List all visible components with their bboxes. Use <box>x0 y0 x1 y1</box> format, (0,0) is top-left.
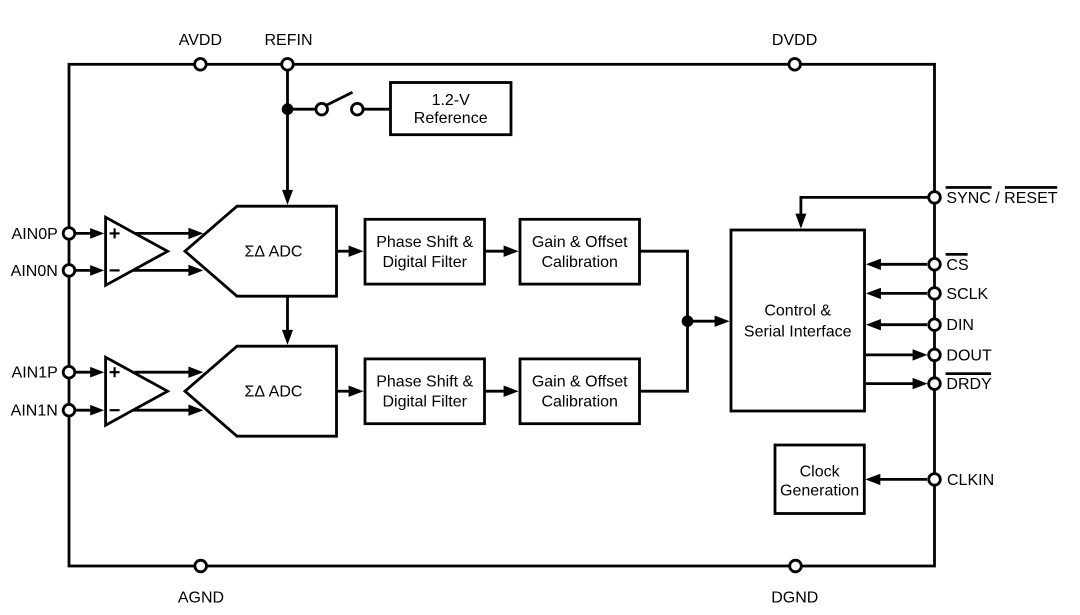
arrow ADC1 to phase filter 1 <box>337 250 351 253</box>
svg-text:Serial Interface: Serial Interface <box>744 324 852 341</box>
arrow DIN to control <box>880 323 927 326</box>
svg-text:DOUT: DOUT <box>946 347 992 364</box>
block Phase Shift Digital Filter 1 <box>365 219 485 284</box>
pin CLKIN <box>929 474 941 486</box>
pin AGND <box>195 560 207 572</box>
pin DRDY <box>929 378 941 390</box>
switch S1 lever <box>326 92 352 105</box>
pin AIN0N <box>63 265 75 277</box>
arrow phase 1 to gain 1 <box>485 250 506 253</box>
pin DGND <box>790 560 802 572</box>
svg-text:AIN0N: AIN0N <box>11 263 58 280</box>
pin SYNC/RESET <box>929 192 941 204</box>
wire amp A1 out P <box>135 232 191 235</box>
svg-text:AIN1N: AIN1N <box>11 403 58 420</box>
arrow REFIN into ADC1 <box>282 190 293 205</box>
block ADC1 sigma-delta <box>185 206 337 296</box>
arrow control to DOUT <box>866 353 914 356</box>
block Control Serial Interface <box>731 230 865 411</box>
chip boundary <box>69 64 935 566</box>
svg-text:Reference: Reference <box>414 110 488 127</box>
node data junction <box>682 315 694 327</box>
svg-text:Calibration: Calibration <box>541 254 617 271</box>
switch S1 throw <box>352 103 364 115</box>
pin DVDD <box>789 59 801 71</box>
svg-text:CLKIN: CLKIN <box>947 472 994 489</box>
block ADC2 sigma-delta <box>185 346 337 436</box>
wire amp A2 out P <box>135 371 191 374</box>
svg-text:1.2-V: 1.2-V <box>432 92 471 109</box>
svg-text:REFIN: REFIN <box>265 32 313 49</box>
arrow SCLK to control <box>880 292 927 295</box>
arrow CLKIN to clock generation <box>880 478 927 481</box>
pin AIN0P <box>63 228 75 240</box>
pin SCLK <box>929 288 941 300</box>
svg-text:Gain & Offset: Gain & Offset <box>532 374 628 391</box>
svg-text:AGND: AGND <box>178 590 224 607</box>
arrow AIN0N to amp <box>76 269 93 272</box>
svg-text:Phase Shift &: Phase Shift & <box>376 234 473 251</box>
arrow control to DRDY <box>866 382 914 385</box>
block Gain Offset Calibration 2 <box>520 359 640 424</box>
block 1.2-V Reference <box>391 83 512 135</box>
block Clock Generation <box>775 445 864 514</box>
pin AIN1P <box>63 366 75 378</box>
op-amp A1 <box>106 217 168 285</box>
svg-text:DVDD: DVDD <box>772 32 817 49</box>
svg-text:ΣΔ ADC: ΣΔ ADC <box>245 384 303 401</box>
node REFIN junction <box>282 103 294 115</box>
svg-text:Digital Filter: Digital Filter <box>382 394 467 411</box>
arrow AIN0P to amp <box>76 232 93 235</box>
svg-text:Phase Shift &: Phase Shift & <box>376 374 473 391</box>
svg-text:DGND: DGND <box>771 590 818 607</box>
arrow AIN1P to amp <box>76 371 93 374</box>
wire amp A2 out N <box>133 409 190 412</box>
pin DIN <box>929 319 941 331</box>
arrow ADC2 to phase filter 2 <box>337 390 351 393</box>
svg-text:Control &: Control & <box>764 303 831 320</box>
arrow into ADC2 <box>282 330 293 345</box>
svg-text:AVDD: AVDD <box>179 32 222 49</box>
wire amp A1 out N <box>133 269 190 272</box>
arrow phase 2 to gain 2 <box>485 390 506 393</box>
svg-text:CS: CS <box>946 257 968 274</box>
arrow junction to control <box>688 320 717 323</box>
block Phase Shift Digital Filter 2 <box>365 359 485 424</box>
pin CS <box>929 259 941 271</box>
svg-text:Calibration: Calibration <box>541 394 617 411</box>
svg-text:DRDY: DRDY <box>946 376 992 393</box>
pin DOUT <box>929 349 941 361</box>
wire SYNC to control <box>801 197 935 216</box>
wire switch to reference <box>363 108 391 111</box>
wire gain1 output <box>640 251 688 391</box>
pin REFIN <box>282 59 294 71</box>
wire REFIN vertical <box>286 64 289 191</box>
pin AIN1N <box>63 404 75 416</box>
svg-text:ΣΔ ADC: ΣΔ ADC <box>245 244 303 261</box>
arrow CS to control <box>880 263 927 266</box>
block Gain Offset Calibration 1 <box>520 219 640 284</box>
switch S1 pole <box>316 103 328 115</box>
svg-text:Generation: Generation <box>780 482 859 499</box>
svg-text:Gain & Offset: Gain & Offset <box>532 234 628 251</box>
svg-text:Clock: Clock <box>800 463 841 480</box>
svg-text:SYNC / RESET: SYNC / RESET <box>946 190 1057 207</box>
wire ADC1 to ADC2 <box>286 298 289 332</box>
pin AVDD <box>195 59 207 71</box>
svg-text:SCLK: SCLK <box>946 286 988 303</box>
wire REFIN junction to switch <box>288 108 317 111</box>
op-amp A2 <box>106 357 168 425</box>
svg-text:AIN1P: AIN1P <box>12 365 58 382</box>
svg-text:AIN0P: AIN0P <box>12 226 58 243</box>
svg-text:Digital Filter: Digital Filter <box>382 254 467 271</box>
arrow AIN1N to amp <box>76 409 93 412</box>
svg-text:DIN: DIN <box>946 317 974 334</box>
